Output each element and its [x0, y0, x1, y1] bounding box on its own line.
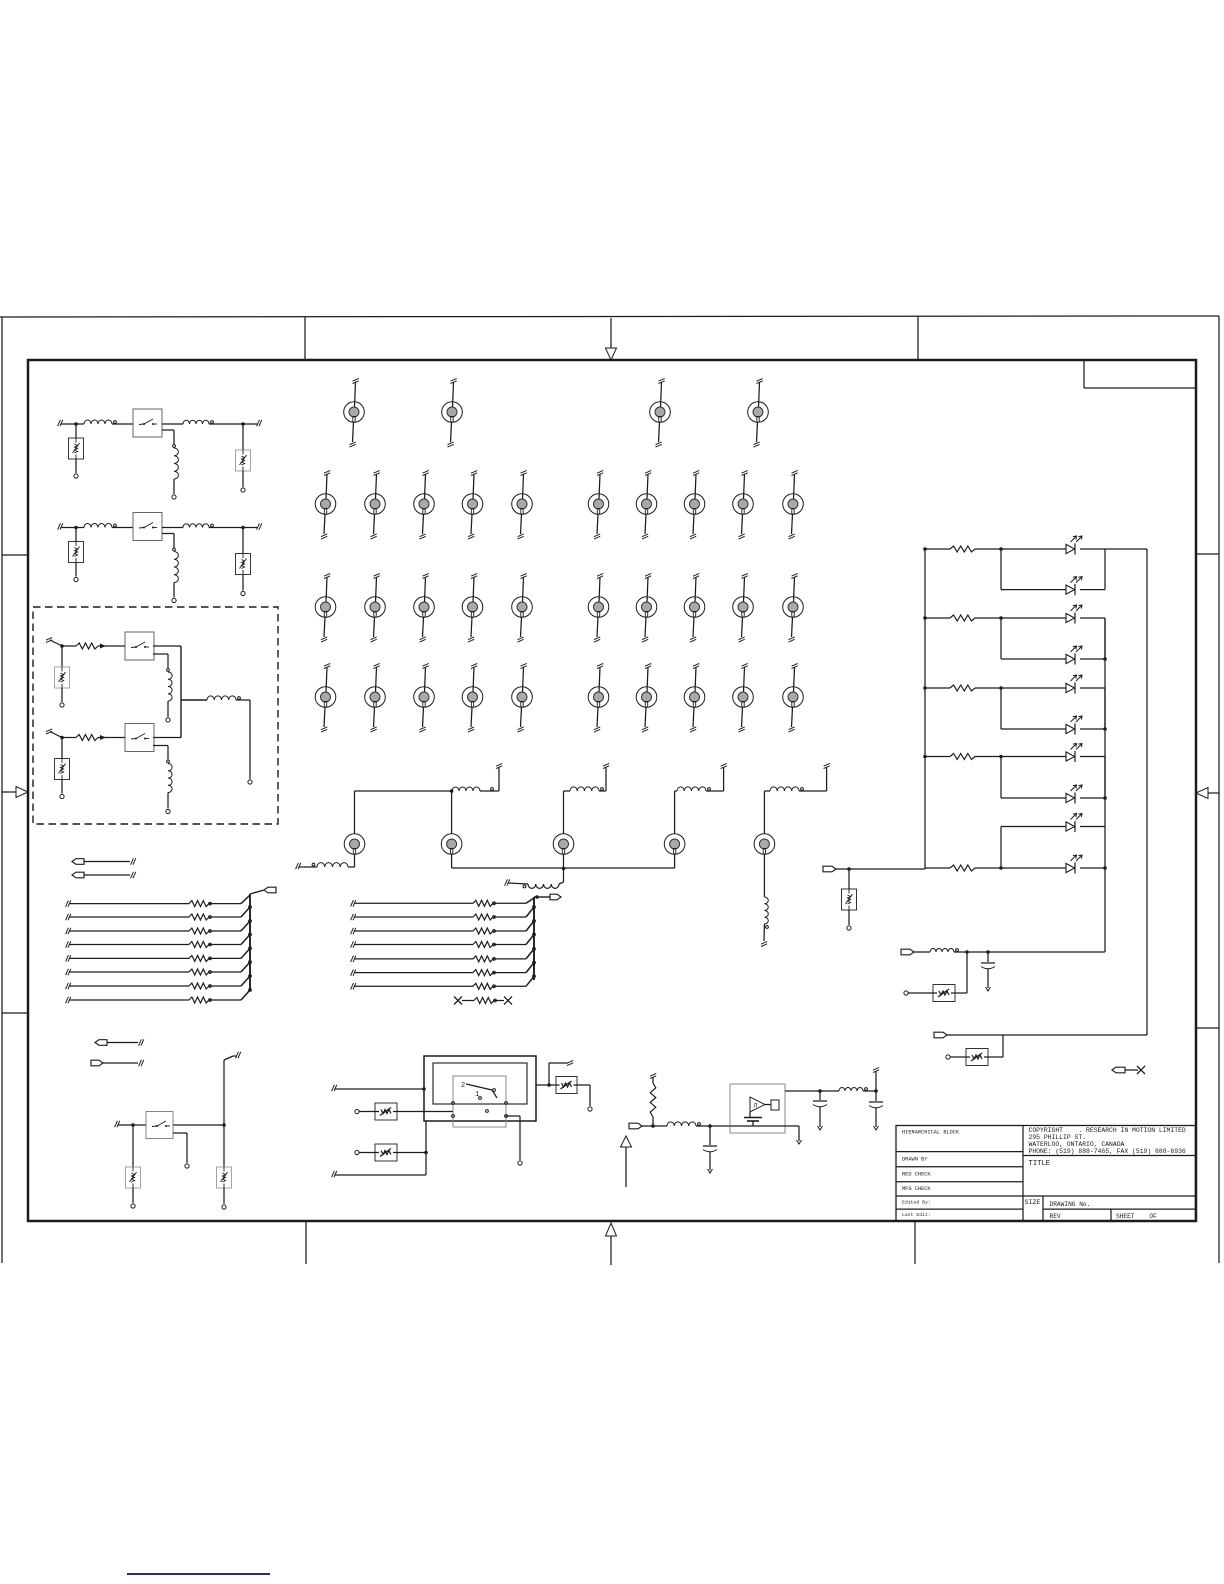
wire	[1001, 688, 1066, 729]
key switch special row	[754, 834, 775, 855]
label RED CHECK	[902, 1172, 931, 1178]
zone tick left A	[2, 554, 28, 556]
ferrite bead in box	[933, 985, 955, 1002]
title block copyright divider	[1023, 1155, 1195, 1157]
ESD suppressor	[236, 450, 251, 471]
wire	[563, 854, 565, 868]
terminal	[904, 991, 908, 995]
connector flag	[72, 859, 130, 865]
title block row line	[896, 1181, 1023, 1183]
wire	[76, 423, 84, 425]
off-sheet tick	[58, 420, 76, 426]
off-sheet tick	[46, 637, 62, 646]
off-sheet tick	[650, 1073, 656, 1078]
svg-text:PHONE: (519) 888-7465, FAX (51: PHONE: (519) 888-7465, FAX (519) 888-693…	[1029, 1148, 1186, 1155]
label address 2	[1029, 1141, 1125, 1148]
wire	[559, 868, 564, 884]
resistor R led1	[923, 546, 975, 552]
ESD suppressor	[236, 554, 251, 575]
terminal	[172, 495, 176, 499]
key switch	[636, 663, 657, 732]
terminal	[60, 703, 64, 707]
capacitor C	[869, 1091, 883, 1127]
off-sheet tick	[505, 879, 528, 885]
key switch row1	[748, 378, 769, 447]
ESD suppressor	[69, 438, 84, 459]
resistor R	[650, 1077, 656, 1117]
pin	[486, 1110, 489, 1113]
key switch	[512, 663, 533, 732]
wire	[875, 1071, 877, 1091]
off-sheet tick	[332, 1085, 424, 1091]
wire	[848, 869, 850, 889]
wire	[1080, 618, 1105, 659]
wire	[359, 1152, 375, 1154]
wire	[153, 737, 181, 739]
wire	[112, 527, 133, 529]
key switch	[588, 573, 609, 642]
bus wire	[180, 646, 182, 738]
ladder2 row resistor	[351, 898, 534, 907]
wire	[173, 583, 175, 598]
wire	[1001, 757, 1066, 799]
wire	[162, 527, 183, 529]
wire	[764, 791, 770, 834]
label DRAWN BY	[902, 1157, 928, 1163]
node junction	[999, 755, 1003, 759]
bus junction	[533, 920, 536, 923]
off-sheet tick	[603, 763, 609, 768]
bus junction	[533, 948, 536, 951]
module outer box	[424, 1056, 536, 1121]
label SHEET OF	[1116, 1213, 1157, 1220]
LED D2	[1066, 577, 1082, 596]
wire	[425, 1121, 427, 1175]
connector flag	[95, 1040, 138, 1046]
wire	[975, 617, 1066, 619]
terminal	[131, 1204, 135, 1208]
bus junction	[1103, 657, 1107, 870]
title block outline	[896, 1126, 1195, 1221]
ferrite bead in box	[556, 1077, 577, 1094]
bus junction	[249, 947, 252, 950]
key switch	[733, 663, 754, 732]
wire	[75, 528, 77, 542]
svg-text:Last Edit:: Last Edit:	[902, 1212, 931, 1218]
wire	[1080, 688, 1105, 729]
zone tick top B	[917, 316, 919, 360]
node junction	[986, 950, 990, 954]
svg-text:SHEET OF: SHEET OF	[1116, 1213, 1157, 1220]
terminal	[60, 794, 64, 798]
bus junction	[249, 975, 252, 978]
off-sheet tick	[139, 1039, 144, 1045]
key switch	[684, 663, 705, 732]
wire	[1080, 827, 1105, 869]
inductor L	[677, 787, 710, 791]
cathode link	[1104, 549, 1106, 590]
sheet outer border top	[0, 316, 1219, 317]
key switch	[365, 573, 386, 642]
terminal	[166, 718, 170, 722]
node junction	[999, 686, 1003, 690]
LED D5	[1066, 675, 1082, 694]
cathode link	[1104, 757, 1106, 799]
off-sheet tick	[332, 1171, 426, 1177]
inductor L	[168, 672, 172, 701]
ladder2 row resistor	[351, 921, 534, 934]
ground arrow	[708, 1169, 713, 1173]
switch S	[133, 409, 162, 437]
wire	[908, 992, 933, 994]
wire	[988, 1035, 1003, 1057]
inductor L	[174, 448, 178, 479]
inductor L	[770, 787, 803, 791]
switch S	[125, 632, 154, 660]
inductor L	[570, 787, 603, 791]
wire	[167, 793, 169, 809]
bus junction	[533, 975, 536, 978]
ESD suppressor	[842, 889, 857, 910]
inductor L	[839, 1088, 867, 1092]
key switch	[684, 573, 705, 642]
bus junction	[533, 961, 536, 964]
ladder1 row resistor	[66, 962, 250, 975]
wire	[955, 952, 967, 993]
wire	[348, 854, 355, 867]
wire	[947, 1034, 1147, 1036]
connector flag	[264, 887, 276, 893]
terminal	[248, 780, 252, 784]
node junction	[999, 547, 1003, 551]
key switch	[462, 470, 483, 539]
wire	[506, 1116, 520, 1160]
title block rev line	[1043, 1208, 1195, 1210]
wire	[549, 1063, 568, 1085]
LED anode bus	[924, 549, 926, 869]
terminal	[241, 591, 245, 595]
wire	[480, 767, 499, 791]
wire	[730, 1126, 799, 1141]
LED D1	[1066, 536, 1082, 555]
terminal	[588, 1107, 592, 1111]
pin label 2	[461, 1082, 465, 1090]
bus junction	[249, 989, 252, 992]
node junction	[241, 422, 245, 426]
pin	[312, 863, 315, 866]
svg-text:REV: REV	[1050, 1213, 1061, 1220]
zone tick right A	[1196, 553, 1219, 555]
wire	[536, 1084, 556, 1086]
sheet inner border	[28, 360, 1196, 1221]
wire	[975, 687, 1066, 689]
key switch	[315, 663, 336, 732]
wire	[132, 1125, 134, 1167]
wire	[954, 951, 1105, 953]
wire	[1080, 549, 1105, 590]
ground arrow	[874, 1126, 879, 1130]
svg-text:SIZE: SIZE	[1025, 1199, 1041, 1206]
wire	[674, 854, 676, 868]
wire	[236, 700, 250, 779]
node junction	[708, 1124, 712, 1128]
wire	[397, 1111, 453, 1113]
title block row line	[896, 1208, 1023, 1210]
label SIZE	[1025, 1199, 1041, 1206]
inductor L	[452, 787, 493, 791]
key switch	[783, 573, 804, 642]
bus junction	[533, 933, 536, 936]
label Edited By	[902, 1200, 931, 1206]
node junction	[562, 867, 566, 871]
wire	[599, 767, 606, 791]
node junction	[74, 526, 78, 530]
off-sheet tick	[496, 763, 502, 768]
key switch	[684, 470, 705, 539]
connector flag	[934, 1032, 947, 1038]
connector flag	[72, 872, 130, 878]
ladder1 bus	[250, 890, 264, 991]
ladder1 row resistor	[66, 907, 250, 920]
svg-text:HIERARCHICAL BLOCK: HIERARCHICAL BLOCK	[902, 1130, 960, 1136]
wire	[162, 423, 183, 425]
wire	[1105, 548, 1147, 550]
label TITLE	[1029, 1160, 1051, 1168]
wire	[975, 756, 1066, 758]
wire	[397, 1152, 426, 1154]
wire	[242, 424, 244, 450]
pin	[523, 885, 526, 888]
inductor L	[667, 1122, 700, 1126]
wire	[242, 528, 244, 554]
node junction	[999, 616, 1003, 620]
wire	[181, 699, 207, 701]
inductor L	[168, 764, 172, 793]
ladder2 row resistor	[351, 976, 534, 989]
wire	[75, 424, 77, 438]
wire	[914, 951, 930, 953]
off-sheet tick	[131, 872, 136, 878]
capacitor C	[981, 952, 995, 988]
off-sheet tick	[236, 1052, 241, 1058]
wire	[1080, 757, 1105, 799]
ferrite bead FB	[84, 524, 116, 528]
svg-text:MFG CHECK: MFG CHECK	[902, 1186, 931, 1192]
title block row line	[896, 1195, 1023, 1197]
ground arrow	[986, 987, 991, 991]
fold arrow right	[1196, 788, 1219, 799]
wire	[577, 1085, 590, 1106]
wire	[785, 1090, 839, 1092]
label REV	[1050, 1213, 1061, 1220]
zone tick left B	[2, 1012, 28, 1014]
svg-text:Edited By:: Edited By:	[902, 1200, 931, 1206]
wire	[173, 1133, 187, 1163]
module inner frame	[433, 1063, 527, 1104]
label MFG CHECK	[902, 1186, 931, 1192]
wire bottom bus	[452, 854, 675, 868]
node junction	[874, 1089, 878, 1093]
wire	[209, 527, 257, 529]
inductor L	[528, 884, 559, 888]
switch S	[146, 1112, 173, 1139]
LED D7	[1066, 744, 1082, 763]
svg-text:WATERLOO, ONTARIO, CANADA: WATERLOO, ONTARIO, CANADA	[1029, 1141, 1125, 1148]
sheet outer border right	[1218, 316, 1220, 1263]
wire	[75, 459, 77, 473]
switch glyph	[466, 1084, 497, 1099]
power arrow	[621, 1136, 632, 1187]
wire	[763, 924, 765, 941]
LED cathode bus	[1104, 618, 1106, 952]
key switch row1	[650, 378, 671, 447]
svg-text:RED CHECK: RED CHECK	[902, 1172, 931, 1178]
ladder2 row resistor	[351, 935, 534, 948]
key switch special row	[664, 834, 685, 855]
off-sheet tick	[824, 763, 830, 768]
ferrite bead in box	[966, 1049, 988, 1066]
revision box	[1084, 360, 1196, 388]
key switch	[414, 470, 435, 539]
node junction	[424, 1151, 428, 1155]
bus junction	[249, 933, 252, 936]
resistor R led3	[923, 685, 975, 691]
label address 1	[1029, 1134, 1087, 1141]
wire	[162, 534, 174, 549]
node junction	[74, 422, 78, 426]
footer rule	[127, 1573, 270, 1575]
ESD suppressor	[69, 542, 84, 563]
bus junction	[249, 906, 252, 909]
wire	[162, 430, 174, 445]
off-sheet tick	[567, 1060, 573, 1065]
inner pin	[452, 1102, 455, 1118]
resistor R led2	[923, 615, 975, 621]
off-sheet tick	[257, 420, 262, 426]
ladder1 row resistor	[66, 990, 250, 1003]
ladder1 row resistor	[66, 976, 250, 989]
resistor	[62, 643, 125, 649]
wire	[564, 791, 571, 834]
key switch	[365, 663, 386, 732]
wire	[242, 575, 244, 591]
wire	[173, 1124, 224, 1126]
wire	[950, 1056, 966, 1058]
resistor	[62, 735, 125, 741]
LED D3	[1066, 605, 1082, 624]
key switch	[512, 573, 533, 642]
zone tick right B	[1196, 1027, 1219, 1029]
label Last Edit	[902, 1212, 931, 1218]
wire	[451, 791, 453, 834]
wire	[975, 548, 1066, 550]
terminal	[166, 809, 170, 813]
wire	[61, 738, 63, 759]
fold arrow left	[2, 787, 28, 798]
wire	[975, 867, 1066, 869]
svg-text:DRAWING No.: DRAWING No.	[1050, 1201, 1091, 1208]
ladder2 row resistor	[351, 949, 534, 962]
wire	[167, 701, 169, 717]
title block row line	[896, 1166, 1023, 1168]
inner pin	[505, 1102, 508, 1118]
ferrite bead in box	[375, 1103, 397, 1120]
terminal	[172, 598, 176, 602]
wire	[75, 563, 77, 577]
node junction	[651, 1124, 655, 1128]
ferrite bead in box	[375, 1144, 397, 1161]
terminal	[355, 1109, 359, 1113]
label HIERARCHICAL BLOCK	[902, 1130, 960, 1136]
key switch	[414, 573, 435, 642]
wire	[153, 746, 168, 761]
key switch	[783, 470, 804, 539]
inductor L	[207, 696, 240, 700]
label phone	[1029, 1148, 1186, 1155]
ground arrow	[797, 1140, 802, 1144]
key switch	[733, 470, 754, 539]
wire	[863, 1090, 876, 1092]
LED D9	[1066, 814, 1082, 833]
zone tick bottom A	[305, 1221, 307, 1264]
key switch	[783, 663, 804, 732]
wire	[153, 654, 168, 669]
ESD suppressor	[126, 1167, 141, 1188]
inductor L	[930, 949, 958, 953]
wire	[1001, 618, 1066, 659]
pin	[173, 548, 176, 551]
key switch	[315, 573, 336, 642]
key switch	[588, 470, 609, 539]
unused resistor with X	[454, 997, 512, 1005]
wire	[355, 791, 452, 834]
title block row line	[896, 1151, 1023, 1153]
sheet outer border left	[1, 317, 3, 1263]
label DRAWING No	[1050, 1201, 1091, 1208]
connector flag	[550, 894, 561, 900]
wire	[224, 1056, 236, 1167]
switch S	[125, 724, 154, 752]
node junction	[547, 1083, 551, 1087]
off-sheet tick	[721, 763, 727, 768]
title block size divider	[1042, 1196, 1044, 1221]
resistor R led4	[923, 754, 975, 760]
off-sheet tick	[131, 858, 136, 864]
wire	[76, 527, 84, 529]
LED D10	[1066, 855, 1082, 874]
terminal	[241, 488, 245, 492]
capacitor C	[813, 1091, 827, 1127]
bus junction	[249, 920, 252, 923]
key switch special row	[344, 834, 365, 855]
pin label 1	[475, 1091, 479, 1099]
off-sheet tick	[257, 523, 262, 529]
terminal	[74, 474, 78, 478]
inductor L	[764, 897, 768, 928]
node junction	[222, 1123, 226, 1127]
terminal	[222, 1205, 226, 1209]
svg-text:COPYRIGHT . RESEARCH IN MOT: COPYRIGHT . RESEARCH IN MOTION LIMITED	[1029, 1127, 1186, 1134]
LED D6	[1066, 716, 1082, 735]
wire	[132, 1188, 134, 1203]
ladder1 row resistor	[66, 948, 250, 961]
label COPYRIGHT	[1029, 1127, 1186, 1134]
node junction	[422, 1087, 426, 1091]
wire	[173, 479, 175, 494]
hierarchical block outline	[33, 607, 278, 824]
svg-text:2: 2	[461, 1082, 465, 1090]
terminal	[946, 1055, 950, 1059]
